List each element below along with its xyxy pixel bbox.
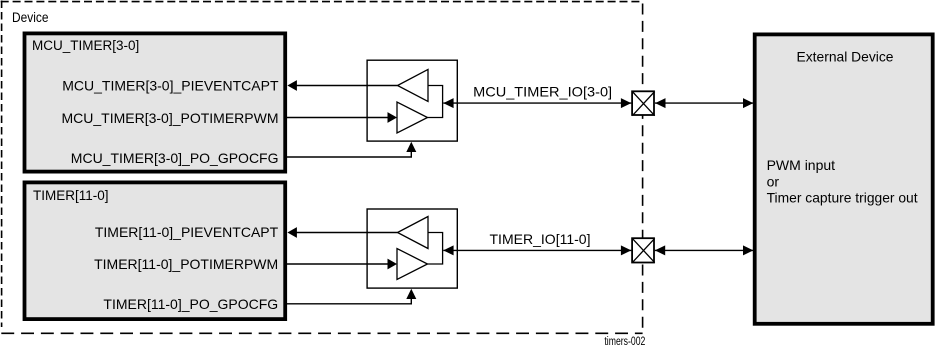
svg-text:MCU_TIMER[3-0]_PIEVENTCAPT: MCU_TIMER[3-0]_PIEVENTCAPT	[62, 77, 279, 93]
svg-text:TIMER[11-0]_PO_GPOCFG: TIMER[11-0]_PO_GPOCFG	[103, 296, 278, 312]
svg-text:Timer capture trigger out: Timer capture trigger out	[767, 189, 918, 205]
svg-text:TIMER_IO[11-0]: TIMER_IO[11-0]	[490, 231, 591, 247]
svg-text:MCU_TIMER[3-0]: MCU_TIMER[3-0]	[32, 38, 139, 53]
svg-text:External Device: External Device	[797, 49, 894, 65]
svg-text:TIMER[11-0]: TIMER[11-0]	[33, 188, 109, 203]
svg-text:MCU_TIMER_IO[3-0]: MCU_TIMER_IO[3-0]	[473, 84, 612, 100]
svg-text:or: or	[767, 174, 780, 190]
svg-text:timers-002: timers-002	[604, 336, 645, 345]
svg-text:PWM input: PWM input	[767, 157, 836, 173]
svg-text:TIMER[11-0]_POTIMERPWM: TIMER[11-0]_POTIMERPWM	[94, 256, 278, 272]
svg-text:MCU_TIMER[3-0]_PO_GPOCFG: MCU_TIMER[3-0]_PO_GPOCFG	[71, 150, 279, 166]
svg-text:MCU_TIMER[3-0]_POTIMERPWM: MCU_TIMER[3-0]_POTIMERPWM	[61, 110, 278, 126]
svg-text:Device: Device	[12, 10, 49, 25]
svg-text:TIMER[11-0]_PIEVENTCAPT: TIMER[11-0]_PIEVENTCAPT	[95, 224, 279, 240]
